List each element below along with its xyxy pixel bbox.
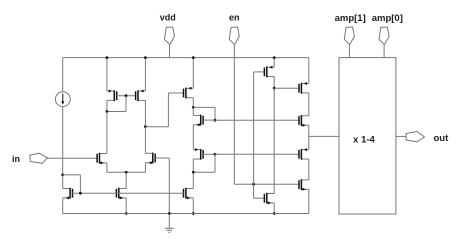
label amp1 — [335, 13, 366, 24]
nmos N3 — [193, 115, 215, 127]
svg-text:amp[0]: amp[0] — [372, 13, 403, 24]
port amp1 — [344, 27, 354, 58]
block x1-4 — [339, 58, 396, 214]
nmos N6 — [299, 115, 309, 127]
wire out — [396, 135, 406, 137]
node — [192, 56, 195, 59]
wire — [308, 125, 310, 149]
wire diode P1 — [107, 96, 126, 112]
wire — [273, 77, 275, 89]
pmos P1 — [107, 90, 117, 102]
wire to N6 gate — [215, 119, 299, 121]
nmos N9 — [264, 193, 274, 205]
wire — [273, 203, 275, 214]
port vdd — [164, 27, 174, 58]
wire — [273, 58, 275, 68]
node — [192, 171, 195, 174]
nmos N1 — [97, 153, 107, 165]
wire bias — [63, 175, 81, 193]
label in — [12, 154, 20, 164]
wire — [144, 100, 146, 126]
label vdd — [160, 12, 176, 22]
wire diode P6 — [193, 154, 215, 172]
wire — [308, 58, 310, 84]
wire — [192, 198, 194, 214]
wire — [144, 127, 146, 154]
node — [125, 94, 128, 97]
wire N9 gate — [254, 184, 265, 198]
wire to P7 gate — [215, 153, 299, 155]
node — [273, 212, 276, 215]
wire — [125, 198, 127, 214]
wire gate pair — [117, 95, 136, 97]
node — [192, 212, 195, 215]
wire gate rail — [72, 192, 183, 194]
wire gate P6 — [203, 153, 215, 155]
pmos P6 — [193, 148, 203, 160]
nmos N5 — [116, 188, 126, 200]
ground — [165, 214, 174, 233]
node — [273, 87, 276, 90]
port amp0 — [379, 27, 389, 58]
nmos N2 — [145, 153, 155, 165]
svg-text:amp[1]: amp[1] — [335, 13, 366, 24]
wire — [144, 58, 146, 91]
wire — [144, 163, 146, 173]
wire gate N2 — [155, 158, 169, 214]
wire gnd rail — [63, 213, 309, 215]
wire — [192, 58, 194, 89]
node — [144, 125, 147, 128]
node — [61, 174, 64, 177]
wire long — [273, 88, 275, 193]
svg-text:out: out — [434, 133, 450, 144]
node — [106, 56, 109, 59]
wire tail down — [125, 172, 127, 188]
wire — [107, 163, 145, 172]
wire — [192, 159, 194, 172]
wire — [106, 58, 108, 91]
nmos Nb1 — [63, 188, 73, 200]
wire — [308, 93, 310, 116]
wire to block — [309, 135, 339, 137]
svg-text:en: en — [229, 12, 240, 22]
label amp0 — [372, 13, 403, 24]
pmos P2 — [136, 90, 146, 102]
port out — [406, 132, 424, 142]
wire — [62, 58, 64, 92]
svg-text:in: in — [12, 154, 20, 164]
wire en net — [234, 183, 299, 185]
port en — [229, 27, 239, 184]
node — [125, 212, 128, 215]
pmos P3 — [184, 87, 194, 99]
node — [214, 119, 217, 122]
node — [273, 56, 276, 59]
node — [168, 212, 171, 215]
wire — [308, 189, 310, 213]
wire — [192, 172, 194, 188]
current source I1 — [55, 92, 70, 107]
pmos P7 — [299, 148, 309, 160]
node — [214, 153, 217, 156]
nmos N8 — [299, 179, 309, 191]
node — [252, 183, 255, 186]
svg-text:x 1-4: x 1-4 — [353, 134, 375, 145]
port in — [30, 153, 48, 163]
wire to P5 gate — [274, 87, 299, 89]
wire in — [48, 157, 98, 159]
pmos P5 — [299, 82, 309, 94]
wire vdd rail — [63, 57, 309, 59]
wire — [308, 159, 310, 180]
wire — [62, 198, 64, 214]
wire — [106, 100, 108, 111]
label x 1-4 — [353, 134, 375, 145]
label en — [229, 12, 240, 22]
node — [106, 110, 109, 113]
wire — [192, 125, 194, 150]
wire — [62, 175, 64, 189]
node — [79, 192, 82, 195]
nmos N4 — [184, 188, 194, 200]
wire diode N3 — [193, 107, 215, 120]
pmos P4 — [264, 66, 274, 78]
wire P4 gate — [254, 72, 265, 184]
label out — [434, 133, 450, 144]
wire — [192, 107, 194, 115]
node tail — [125, 171, 128, 174]
wire — [62, 107, 64, 175]
node — [192, 106, 195, 109]
node — [144, 56, 147, 59]
wire — [106, 112, 108, 154]
wire to P3 gate — [145, 93, 183, 127]
svg-text:vdd: vdd — [160, 12, 176, 22]
wire — [192, 98, 194, 108]
